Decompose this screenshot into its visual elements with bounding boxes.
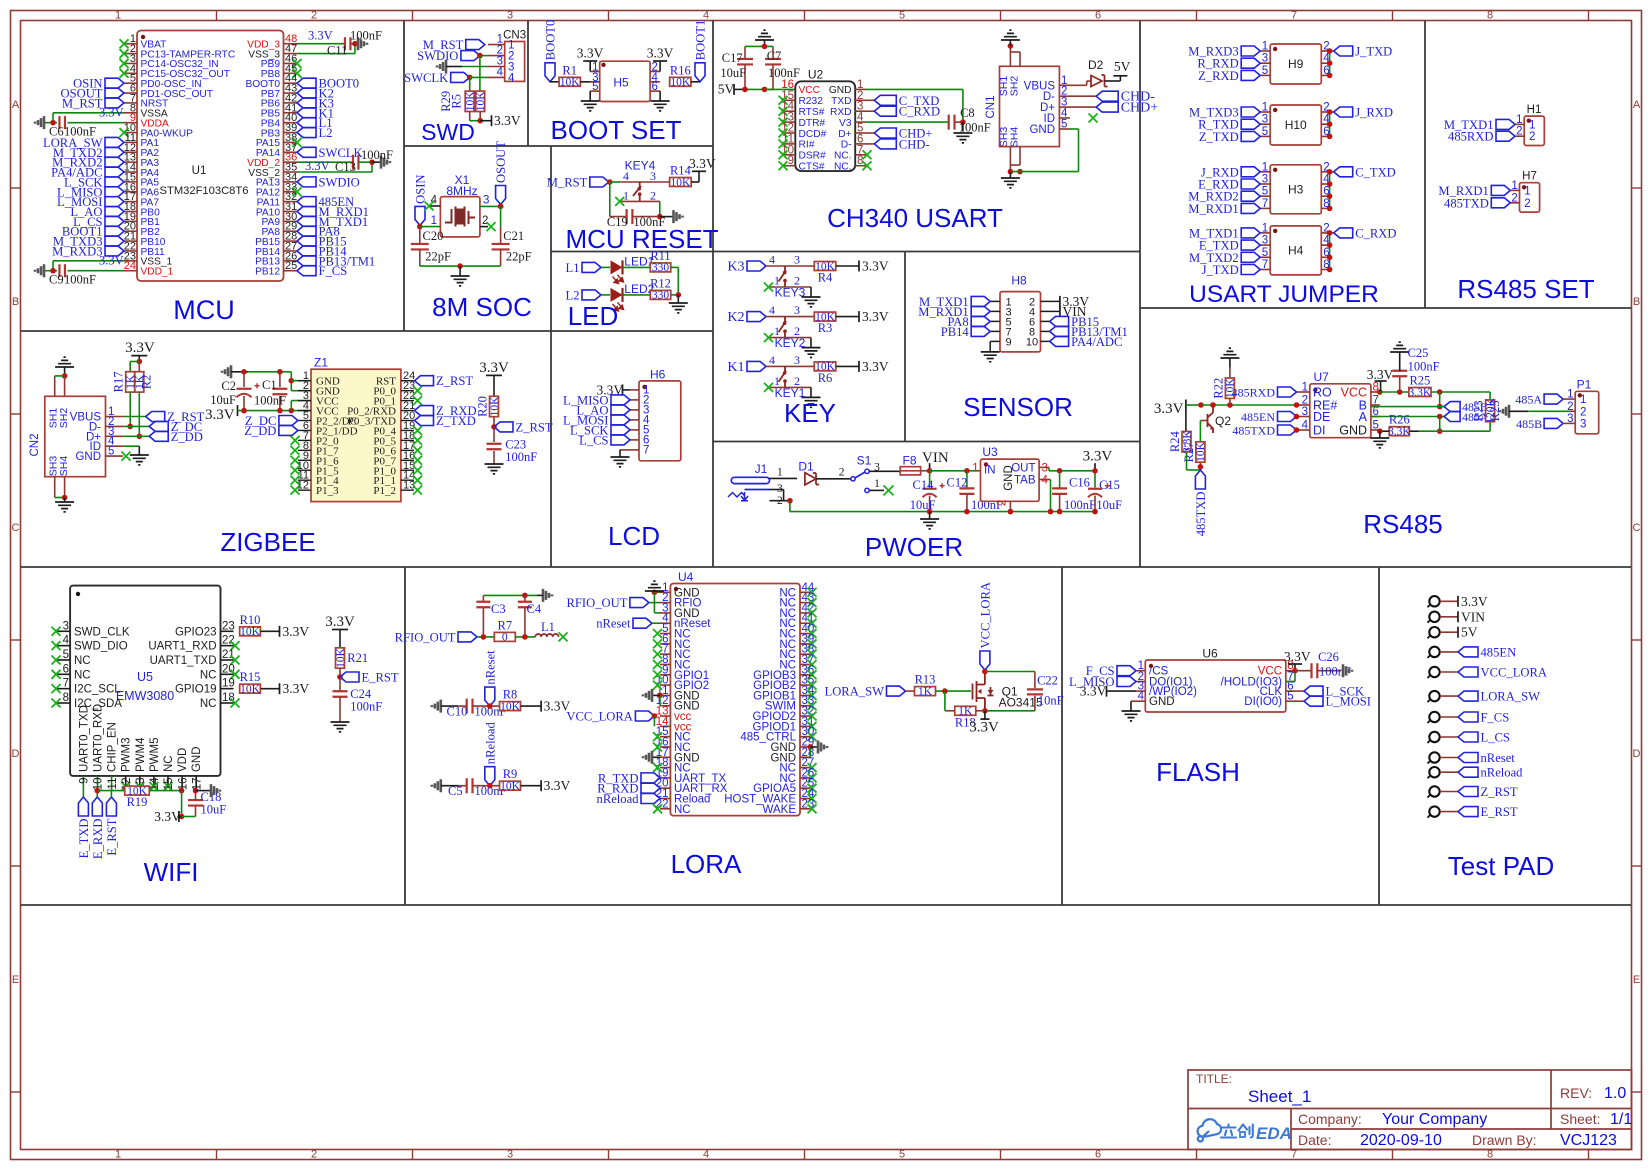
U1 pin 7 NRST — [124, 102, 137, 104]
svg-text:C17: C17 — [722, 51, 743, 65]
ground C24 — [331, 722, 350, 732]
resistor R21 10K — [336, 648, 345, 668]
U1 pin 2 PC13-TAMPER-RTC — [124, 53, 137, 55]
svg-text:Z_DD: Z_DD — [244, 424, 276, 438]
wire R19 to VDD — [150, 790, 182, 792]
svg-text:D-: D- — [841, 140, 852, 151]
net flag L_CS — [1458, 732, 1478, 742]
svg-text:2: 2 — [650, 188, 656, 202]
U5 pin 13 PWM4 — [139, 776, 141, 786]
svg-text:3.3V: 3.3V — [544, 778, 571, 793]
3.3V power R9 — [540, 780, 542, 791]
svg-text:1K: 1K — [918, 686, 933, 698]
svg-text:NC: NC — [74, 655, 91, 667]
CN2 pin 3 D+ — [106, 435, 124, 437]
U4 pin 25 GPIOA5 — [800, 787, 810, 789]
svg-text:E_TXD: E_TXD — [77, 819, 91, 859]
svg-text:5: 5 — [1061, 119, 1067, 131]
U1 pin 42 PB6 — [284, 102, 298, 104]
net flag L_MOSI — [105, 197, 124, 207]
U4 pin 15 NC — [660, 736, 670, 738]
svg-text:2: 2 — [1302, 395, 1308, 407]
3.3V power R8 — [540, 701, 542, 712]
net flag K1 — [297, 108, 316, 118]
svg-text:3.3V: 3.3V — [325, 614, 355, 630]
net flag M_RXD2 — [105, 157, 124, 167]
net flag R_RXD — [1241, 58, 1260, 68]
wire LORA_SW to R13 — [906, 690, 915, 692]
svg-text:LORA: LORA — [671, 849, 742, 879]
svg-text:NC: NC — [674, 804, 691, 816]
U1 pin 29 PA8 — [284, 230, 298, 232]
svg-text:3: 3 — [1302, 406, 1308, 418]
svg-text:A: A — [1359, 410, 1368, 424]
svg-text:L2: L2 — [319, 126, 333, 140]
svg-text:17: 17 — [191, 778, 203, 791]
ZIGBEE module Z1 — [311, 369, 401, 501]
svg-text:RO: RO — [1313, 386, 1332, 400]
wire KEY4 pin2 down — [659, 201, 661, 216]
svg-text:M_RXD1: M_RXD1 — [1188, 202, 1238, 216]
svg-text:C25: C25 — [1408, 346, 1429, 360]
net flag M_RST — [466, 40, 485, 50]
svg-text:20: 20 — [222, 663, 235, 675]
svg-text:R19: R19 — [127, 795, 148, 809]
U4 pin 2 RFIO — [660, 602, 670, 604]
U1 pin 8 VSSA — [124, 112, 137, 114]
svg-text:485RXD: 485RXD — [1232, 386, 1276, 400]
test pad 485EN — [1429, 647, 1439, 657]
svg-text:E: E — [1633, 974, 1640, 986]
svg-text:BOOT SET: BOOT SET — [551, 115, 682, 145]
CN1 pin 5 GND — [1059, 128, 1070, 130]
svg-text:C_TXD: C_TXD — [1355, 165, 1396, 179]
net flag nReset — [1458, 753, 1478, 763]
U2 pin 4 V3 — [855, 121, 866, 123]
svg-text:R5: R5 — [450, 94, 464, 109]
U4 pin 3 GND — [660, 612, 670, 614]
svg-text:SWCLK: SWCLK — [404, 71, 448, 85]
svg-text:3.3V: 3.3V — [689, 156, 716, 171]
svg-text:3: 3 — [1580, 418, 1586, 430]
capacitor C7 100nF — [772, 46, 774, 59]
capacitor C24 100nF — [339, 677, 341, 691]
svg-text:Sheet:: Sheet: — [1560, 1111, 1600, 1127]
net flag BOOT1 — [105, 226, 124, 236]
net flag RFIO_OUT to U4 — [630, 598, 649, 608]
U1 pin 14 PA4 — [124, 171, 137, 173]
net flag E_RXD (vertical) — [92, 797, 102, 816]
U2 pin 10 DSR# — [784, 154, 795, 156]
svg-text:GND: GND — [829, 85, 852, 96]
resistor R5 10K — [476, 91, 485, 111]
net flag E_RST — [1458, 807, 1478, 817]
3.3V power Q1 — [984, 711, 986, 719]
3.3V power — [836, 365, 859, 367]
no-connect L1 — [559, 632, 568, 641]
svg-text:H1: H1 — [1527, 104, 1542, 116]
connector P1 — [1575, 391, 1599, 434]
U6 pin 4 GND — [1136, 700, 1145, 702]
svg-text:3: 3 — [1262, 114, 1268, 126]
U4 pin 1 GND — [660, 591, 670, 593]
ground arrow 485A cable side — [1500, 405, 1509, 418]
block divider lines — [21, 330, 714, 332]
CN3 pin 4 — [488, 76, 505, 78]
svg-text:1: 1 — [115, 1149, 121, 1161]
resistor R18 1K — [982, 708, 988, 714]
svg-text:485A: 485A — [1515, 393, 1542, 407]
U5 pin 5 NC — [57, 659, 70, 661]
svg-text:2: 2 — [1524, 198, 1530, 210]
net flag Z_TXD — [415, 416, 434, 426]
U6 pin 7 /HOLD(IO3) — [1286, 681, 1295, 683]
svg-text:3.3V: 3.3V — [99, 106, 124, 120]
svg-text:DCD#: DCD# — [799, 129, 827, 140]
svg-text:R8: R8 — [503, 688, 518, 702]
U1 pin 13 PA3 — [124, 161, 137, 163]
capacitor C12 100nF — [966, 471, 968, 489]
svg-text:C14: C14 — [913, 478, 935, 492]
H6 pin 1 — [630, 389, 639, 391]
U4 pin 36 GPIOB3 — [800, 674, 810, 676]
U1 pin 17 PA7 — [124, 201, 137, 203]
svg-text:A: A — [1633, 99, 1641, 111]
svg-text:C_RXD: C_RXD — [1355, 226, 1396, 240]
svg-text:3: 3 — [1042, 463, 1048, 475]
net flag M_TXD1 — [1241, 228, 1260, 238]
svg-text:D1: D1 — [798, 460, 814, 474]
U4 pin 12 GND — [660, 705, 670, 707]
svg-text:1: 1 — [1262, 102, 1268, 114]
U4 pin 9 GPIO1 — [660, 674, 670, 676]
net flag J_RXD — [1241, 167, 1260, 177]
U4 pin 31 GPIOD1 — [800, 725, 810, 727]
net flag M_RXD1 — [1241, 203, 1260, 213]
svg-text:CHIP_EN: CHIP_EN — [107, 722, 119, 772]
svg-text:LCD: LCD — [608, 521, 660, 551]
Z1 pin 22 P0_1 — [401, 400, 414, 402]
svg-text:TAB: TAB — [1014, 475, 1036, 487]
net flag OSOUT (vertical) — [496, 186, 506, 205]
svg-text:U2: U2 — [808, 68, 824, 82]
svg-text:KEY2: KEY2 — [775, 336, 806, 350]
capacitor C14 10uF polarized — [929, 471, 931, 488]
svg-text:H5: H5 — [613, 76, 629, 90]
svg-text:GND: GND — [1339, 424, 1367, 438]
VIN power H8 pin4 — [1050, 310, 1060, 312]
svg-text:100nF: 100nF — [1408, 359, 1440, 373]
svg-text:485TXD: 485TXD — [1444, 196, 1489, 210]
test pad Z_RST — [1429, 786, 1439, 796]
svg-text:E: E — [12, 974, 19, 986]
svg-text:SH2: SH2 — [58, 408, 70, 429]
CN2 pin 1 VBUS — [106, 416, 124, 418]
svg-text:R4: R4 — [818, 271, 833, 285]
svg-text:5: 5 — [108, 446, 114, 458]
svg-text:3: 3 — [1567, 413, 1573, 425]
Z1 pin 15 P1_0 — [401, 469, 414, 471]
net flag LORA_SW — [887, 686, 906, 696]
Z1 pin 3 VCC — [298, 400, 311, 402]
resistor R2 1K — [138, 362, 140, 372]
bottom rail to R26 — [1419, 430, 1490, 432]
U4 pin 44 NC — [800, 591, 810, 593]
svg-text:485B: 485B — [1516, 417, 1542, 431]
U7 pin 6 A — [1371, 416, 1380, 418]
net flag M_RXD1 — [1491, 185, 1510, 195]
net flag M_RXD1 — [297, 206, 316, 216]
ground arrow C10 — [432, 700, 441, 713]
svg-text:VCC_LORA: VCC_LORA — [566, 710, 632, 724]
svg-text:DI(IO0): DI(IO0) — [1244, 696, 1282, 708]
H6 pin 3 — [630, 409, 639, 411]
U4 pin 35 GPIOB2 — [800, 684, 810, 686]
svg-text:CN2: CN2 — [29, 433, 41, 456]
svg-text:3.3V: 3.3V — [154, 809, 181, 824]
U1 pin 43 PB7 — [284, 92, 298, 94]
net flag 485RXD — [1496, 131, 1515, 141]
U4 pin 11 GND — [660, 694, 670, 696]
U2 pin 5 D+ — [855, 132, 866, 134]
H9 pin 3 / 4 — [1260, 62, 1270, 64]
crystal X1 8MHz — [440, 197, 480, 237]
svg-text:3: 3 — [63, 620, 69, 632]
svg-text:2: 2 — [1529, 131, 1535, 143]
svg-text:UART1_RXD: UART1_RXD — [148, 641, 216, 653]
svg-text:5: 5 — [1262, 126, 1268, 138]
header H5 — [600, 61, 650, 101]
U4 pin 29 GND — [800, 746, 810, 748]
svg-text:C6: C6 — [49, 125, 64, 139]
svg-text:C12: C12 — [947, 476, 968, 490]
H4 pin 5 / 6 — [1260, 256, 1270, 258]
U5 pin 18 NC — [221, 702, 234, 704]
U4 pin 18 NC — [660, 767, 670, 769]
U1 pin 1 VBAT — [124, 43, 137, 45]
ground arrow MCU RESET — [660, 216, 674, 218]
EasyEDA logo — [1198, 1119, 1222, 1141]
svg-text:VCC: VCC — [1341, 386, 1367, 400]
net flag Z_RST — [146, 412, 165, 422]
svg-text:24: 24 — [124, 260, 136, 272]
svg-text:Drawn By:: Drawn By: — [1472, 1132, 1537, 1148]
resistor R29 10K — [465, 91, 474, 111]
CN2 pin 2 D- — [106, 425, 124, 427]
net flag L_MISO — [1117, 677, 1136, 687]
svg-text:100nF: 100nF — [64, 273, 96, 287]
svg-text:485TXD: 485TXD — [1194, 492, 1208, 537]
svg-text:2: 2 — [1516, 126, 1522, 138]
svg-text:3: 3 — [1262, 174, 1268, 186]
svg-text:RTS#: RTS# — [799, 107, 825, 118]
svg-text:EDA: EDA — [1256, 1124, 1292, 1143]
svg-text:U7: U7 — [1314, 370, 1330, 384]
H9 pin 5 / 6 — [1260, 74, 1270, 76]
svg-text:3.3V: 3.3V — [1080, 684, 1107, 699]
wire VCC row — [1380, 391, 1409, 393]
svg-text:D2: D2 — [1088, 58, 1104, 72]
svg-text:100nF: 100nF — [254, 394, 286, 408]
svg-text:R13: R13 — [915, 673, 936, 687]
H9 pin 1 / 2 — [1260, 50, 1270, 52]
no-connects U4 pins 15,16,18 — [653, 732, 662, 741]
svg-text:ZIGBEE: ZIGBEE — [220, 527, 315, 557]
wire K1 to resistor — [766, 365, 814, 367]
net flag nReset (vertical) — [485, 687, 495, 706]
H6 pin 6 — [630, 439, 639, 441]
svg-text:MCU RESET: MCU RESET — [565, 224, 718, 254]
svg-text:7: 7 — [63, 678, 69, 690]
header H6 — [639, 381, 681, 461]
H10 pin 3 / 4 — [1260, 123, 1270, 125]
net flag BOOT0 — [297, 78, 316, 88]
net flag BOOT1 (vertical) — [695, 63, 705, 82]
wire C3/C4 top rail — [483, 594, 537, 596]
svg-text:CN3: CN3 — [503, 30, 526, 42]
net flag L_AO — [105, 206, 124, 216]
X1 pin 1 — [420, 226, 441, 228]
svg-text:485RXD: 485RXD — [1448, 130, 1493, 144]
net flag CHD+ — [1070, 106, 1096, 108]
svg-text:100nF: 100nF — [505, 450, 537, 464]
svg-text:3.3V: 3.3V — [862, 359, 889, 374]
C13 100nF decoupling with 3.3V and ground — [297, 161, 353, 163]
svg-text:23: 23 — [222, 620, 235, 632]
ground above R22 — [1220, 348, 1239, 358]
svg-text:J_TXD: J_TXD — [1202, 263, 1239, 277]
resistor R14 10K — [670, 178, 692, 187]
top rail VIN to U3 IN — [930, 470, 981, 472]
svg-text:K2: K2 — [727, 310, 744, 325]
net flag PB14 — [971, 326, 990, 336]
svg-text:RS485 SET: RS485 SET — [1457, 274, 1594, 304]
svg-text:3.3V: 3.3V — [647, 46, 674, 61]
net flag M_TXD3 — [1241, 107, 1260, 117]
svg-text:OSIN: OSIN — [414, 175, 428, 204]
net flag Z_RST Z1 pin24 — [415, 376, 434, 386]
svg-text:3.3V: 3.3V — [862, 309, 889, 324]
wire B row — [1380, 404, 1381, 406]
U1 pin 21 PB10 — [124, 240, 137, 242]
Z1 pin 24 RST — [401, 380, 414, 382]
H8 pins 1/2 — [990, 300, 1000, 302]
svg-text:L1: L1 — [566, 261, 580, 275]
net flag Z_RXD — [1241, 70, 1260, 80]
svg-text:L1: L1 — [541, 620, 555, 634]
test pad F_CS — [1429, 712, 1439, 722]
svg-text:3.3V: 3.3V — [969, 720, 999, 736]
net flag PB13/TM1 — [297, 256, 316, 266]
svg-text:2: 2 — [311, 1149, 317, 1161]
Z1 pin 11 P1_4 — [298, 479, 311, 481]
net flag M_TXD1 — [297, 216, 316, 226]
svg-text:4: 4 — [1042, 475, 1049, 487]
ground arrow C3/C4 — [543, 589, 552, 602]
resistor R19 10K — [125, 786, 150, 795]
svg-text:H6: H6 — [650, 368, 666, 382]
header H1 — [1524, 116, 1544, 145]
net flag SWDIO — [297, 177, 316, 187]
H6 pin 2 — [630, 399, 639, 401]
net flag L_CS — [105, 216, 124, 226]
U4 pin 7 NC — [660, 653, 670, 655]
svg-text:LORA_SW: LORA_SW — [1481, 690, 1541, 704]
svg-text:E_RXD: E_RXD — [91, 819, 105, 860]
wire SWCLK down to R29 — [469, 77, 471, 91]
wire J1 ground to rail — [789, 501, 791, 512]
Z1 pin 7 P2_0 — [298, 439, 311, 441]
wire M_RST to key and R14 — [610, 181, 621, 183]
3.3V power R15 — [279, 683, 281, 694]
svg-text:1: 1 — [874, 478, 880, 490]
3.3V power H8 pin2 — [1050, 300, 1060, 302]
U6 pin 2 DO(IO1) — [1136, 681, 1145, 683]
svg-text:UART0_RXD: UART0_RXD — [93, 704, 105, 772]
net flag Z_RXD — [415, 406, 434, 416]
svg-text:3.3V: 3.3V — [283, 681, 310, 696]
SWD connector CN3 — [505, 42, 525, 82]
U7 pin 1 RO — [1297, 391, 1310, 393]
Q2 base wire — [1200, 420, 1207, 422]
svg-text:DI: DI — [1313, 424, 1326, 438]
svg-text:C10: C10 — [447, 705, 468, 719]
wire GND rail to Z1 pins 1,2 — [290, 372, 292, 391]
svg-text:L_CS: L_CS — [1481, 731, 1510, 745]
svg-text:3: 3 — [483, 195, 489, 207]
3.3V power MCU RESET — [691, 181, 699, 183]
net flag 485EN — [297, 197, 316, 207]
S1 unused pin 1 — [865, 488, 869, 492]
U3 GND pin to rail — [1009, 501, 1011, 511]
capacitor C18 10uF — [182, 816, 196, 818]
svg-text:Sheet_1: Sheet_1 — [1248, 1087, 1311, 1106]
svg-text:1: 1 — [972, 463, 978, 475]
svg-text:10K: 10K — [240, 626, 261, 638]
U4 pin 27 NC — [800, 767, 810, 769]
net flag L_AO — [611, 405, 630, 415]
U2 pin 9 CTS# — [784, 165, 795, 167]
svg-text:0: 0 — [502, 632, 508, 644]
KEY3 lower contacts — [770, 286, 811, 288]
U1 pin 28 PB15 — [284, 240, 298, 242]
net flag 485A — [1444, 412, 1460, 422]
svg-text:R26: R26 — [1389, 413, 1410, 427]
U5 pin 7 I2C_SCL — [57, 688, 70, 690]
svg-text:1: 1 — [431, 215, 437, 227]
svg-text:10K: 10K — [560, 77, 581, 89]
U7 pin 4 DI — [1297, 429, 1310, 431]
svg-text:3.3V: 3.3V — [1461, 594, 1488, 609]
svg-text:3.3V: 3.3V — [283, 624, 310, 639]
svg-text:330: 330 — [652, 262, 670, 274]
svg-text:M_RXD3: M_RXD3 — [52, 244, 102, 258]
wire M_RST down to C19 — [609, 182, 611, 217]
U4 pin17 GND — [652, 756, 660, 758]
RS485 transceiver U7 — [1310, 384, 1371, 438]
Z1 pin 2 GND — [298, 390, 311, 392]
svg-text:8: 8 — [63, 692, 69, 704]
Z1 pin 19 P0_4 — [401, 429, 414, 431]
svg-text:NC.: NC. — [834, 151, 852, 162]
svg-text:3: 3 — [1262, 235, 1268, 247]
svg-text:1: 1 — [1262, 222, 1268, 234]
Z1 pin 4 VCC — [298, 410, 311, 412]
U1 pin 11 PA1 — [124, 141, 137, 143]
CN3 pin 3 — [488, 66, 505, 68]
svg-text:5: 5 — [1287, 691, 1293, 703]
svg-text:D: D — [12, 748, 20, 760]
